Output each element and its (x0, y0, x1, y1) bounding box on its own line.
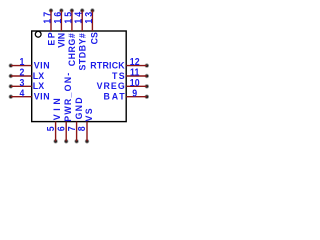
pin 13 CS (top) (82, 8, 99, 44)
wire pin 12 (126, 65, 147, 67)
pin 9 BAT (right) (104, 87, 149, 102)
svg-text:9: 9 (132, 87, 137, 99)
pin 3 LX (left) (9, 76, 45, 91)
pin 2 LX (left) (9, 66, 45, 81)
svg-text:CHRG#: CHRG# (67, 33, 77, 66)
pin 1 VIN (left) (9, 56, 50, 71)
pin 4 end dot (9, 95, 13, 99)
pin 8 end dot (85, 139, 89, 143)
wire pin 1 (11, 65, 32, 67)
svg-text:VIN: VIN (34, 60, 50, 70)
pin 14 end dot (80, 8, 84, 12)
pin-1 indicator circle (35, 31, 41, 37)
svg-text:VIN: VIN (52, 98, 62, 120)
wire pin 5 (55, 122, 57, 142)
pin 11 end dot (145, 74, 149, 78)
svg-text:4: 4 (19, 87, 25, 99)
pin 1 end dot (9, 63, 13, 67)
svg-text:GND: GND (73, 97, 83, 119)
wire pin 7 (76, 122, 78, 142)
svg-text:RTRICK: RTRICK (90, 60, 125, 70)
pin 9 end dot (145, 95, 149, 99)
pin 10 end dot (145, 84, 149, 88)
svg-text:PWR_ON-: PWR_ON- (63, 73, 73, 122)
svg-text:LX: LX (33, 71, 45, 81)
pin 7 GND (bottom) (65, 97, 84, 143)
svg-text:LX: LX (33, 81, 45, 91)
pin 14 STDBY# (top) (72, 8, 87, 70)
pin 12 end dot (145, 63, 149, 67)
pin 16 VIN (top) (51, 8, 66, 47)
pin 5 end dot (53, 139, 57, 143)
pin 3 end dot (9, 84, 13, 88)
pin 17 EP (top) (41, 8, 57, 45)
wire pin 9 (126, 96, 147, 98)
pin 10 VREG (right) (97, 76, 149, 91)
wire pin 16 (60, 11, 62, 32)
wire pin 2 (11, 75, 32, 77)
svg-text:8: 8 (76, 126, 88, 131)
pin 17 end dot (49, 8, 53, 12)
pin 15 end dot (70, 8, 74, 12)
wire pin 10 (126, 85, 147, 87)
wire pin 17 (50, 11, 52, 32)
wire pin 6 (65, 122, 67, 142)
wire pin 15 (71, 11, 73, 32)
pin 13 end dot (90, 8, 94, 12)
svg-text:VS: VS (84, 108, 94, 121)
wire pin 8 (86, 122, 88, 142)
svg-text:VREG: VREG (97, 81, 125, 91)
pin 15 CHRG# (top) (62, 8, 77, 66)
svg-text:EP: EP (46, 32, 56, 45)
wire pin 14 (81, 11, 83, 32)
pin 7 end dot (74, 139, 78, 143)
pin 2 end dot (9, 74, 13, 78)
svg-text:VIN: VIN (56, 33, 66, 48)
pin 4 VIN (left) (9, 87, 50, 102)
pin 6 PWR_ON- (bottom) (55, 73, 73, 144)
wire pin 13 (91, 11, 93, 32)
wire pin 4 (11, 96, 32, 98)
svg-text:TS: TS (112, 71, 125, 81)
pin 6 end dot (64, 139, 68, 143)
svg-text:CS: CS (89, 32, 99, 44)
svg-text:STDBY#: STDBY# (77, 33, 87, 70)
pin 11 TS (right) (112, 66, 149, 81)
wire pin 11 (126, 75, 147, 77)
IC body outline (32, 31, 127, 122)
svg-text:BAT: BAT (104, 91, 126, 101)
pin 16 end dot (59, 8, 63, 12)
svg-text:VIN: VIN (34, 91, 50, 101)
pin 8 VS (bottom) (76, 108, 95, 143)
wire pin 3 (11, 85, 32, 87)
pin 12 RTRICK (right) (90, 56, 149, 71)
pin 5 VIN (bottom) (44, 98, 62, 144)
